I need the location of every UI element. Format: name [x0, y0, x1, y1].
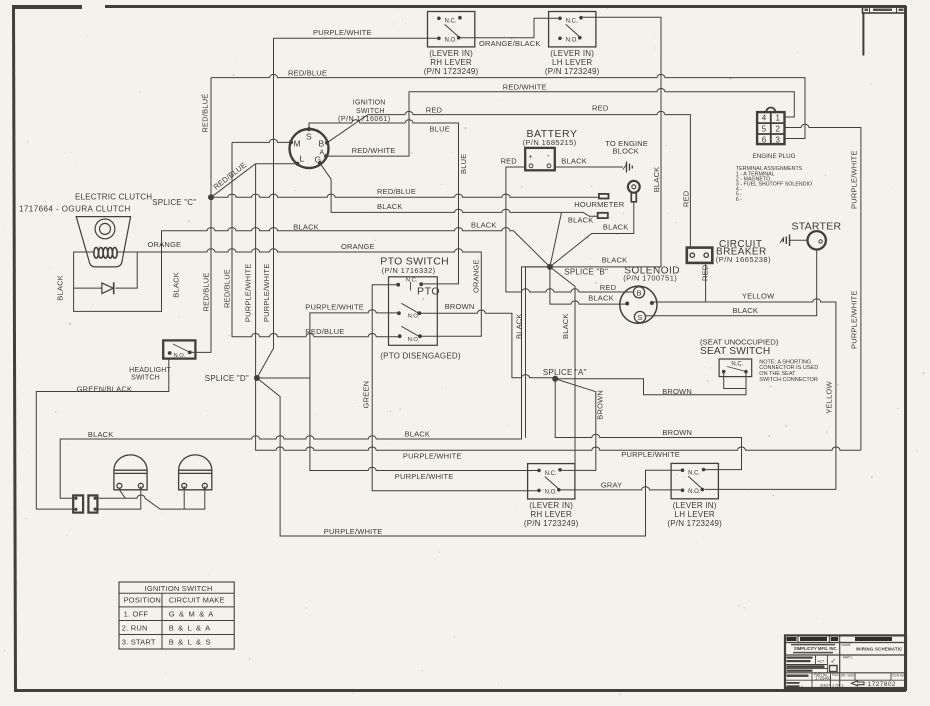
splice A — [552, 376, 558, 382]
wire: PURPLE/WHITE right vertical from engine plug pin 2 — [785, 124, 861, 450]
svg-text:N.C.: N.C. — [688, 471, 700, 477]
splice C — [208, 194, 214, 200]
svg-text:S: S — [306, 132, 312, 142]
svg-text:N.O.: N.O. — [174, 353, 186, 359]
svg-text:RED/BLUE: RED/BLUE — [202, 272, 211, 311]
svg-text:WIRING SCHEMATIC: WIRING SCHEMATIC — [856, 646, 903, 651]
svg-text:(P/N 1723249): (P/N 1723249) — [667, 519, 722, 528]
svg-text:(LEVER IN): (LEVER IN) — [429, 49, 473, 58]
battery (P/N 1685215) — [523, 128, 578, 170]
svg-text:PURPLE/WHITE: PURPLE/WHITE — [395, 472, 454, 481]
svg-text:SIMPLICITY MFG. INC.: SIMPLICITY MFG. INC. — [794, 646, 838, 651]
svg-text:PURPLE/WHITE: PURPLE/WHITE — [262, 263, 271, 322]
svg-text:1: 1 — [775, 114, 780, 123]
wire: BROWN PTO N.O. to splice A — [419, 310, 555, 378]
circuit breaker (P/N 1665238) — [687, 239, 771, 264]
engine plug — [757, 107, 784, 144]
svg-text:3. START: 3. START — [122, 638, 156, 647]
svg-text:+: + — [529, 154, 533, 161]
svg-text:(P/N 1685215): (P/N 1685215) — [523, 138, 577, 147]
svg-text:FILE: FILE — [832, 673, 839, 677]
svg-text:N.O.: N.O. — [408, 337, 420, 343]
svg-text:RED/WHITE: RED/WHITE — [352, 146, 396, 155]
lever switch RH lower (P/N 1723249) — [524, 464, 579, 528]
svg-text:STARTER: STARTER — [792, 220, 842, 232]
svg-text:(P/N 1716061): (P/N 1716061) — [338, 114, 391, 123]
svg-text:M: M — [294, 139, 301, 149]
svg-text:N.O.: N.O. — [545, 489, 558, 495]
wire: BLACK from ignition G to hourmeter lower terminal — [320, 163, 598, 216]
svg-text:DR. SIZE: DR. SIZE — [841, 674, 854, 678]
svg-text:RED/WHITE: RED/WHITE — [503, 83, 547, 92]
svg-text:ELECTRIC CLUTCH: ELECTRIC CLUTCH — [75, 192, 152, 201]
svg-text:RH LEVER: RH LEVER — [530, 510, 572, 519]
headlamp 1 — [114, 455, 147, 490]
diode branch wire — [74, 252, 138, 288]
svg-text:ECN No.: ECN No. — [893, 674, 906, 678]
svg-text:LH LEVER: LH LEVER — [552, 58, 592, 67]
seat switch shorting connector wire — [724, 372, 746, 389]
svg-text:(P/N 1665238): (P/N 1665238) — [716, 255, 771, 264]
svg-text:BLACK: BLACK — [602, 255, 628, 264]
svg-text:B & L & A: B & L & A — [169, 623, 212, 632]
svg-text:LH LEVER: LH LEVER — [675, 510, 715, 519]
wire: YELLOW solenoid to LH(lower) N.O. right — [652, 299, 836, 490]
PTO switch (P/N 1716332) — [380, 255, 461, 360]
svg-text:N.C.: N.C. — [731, 361, 743, 367]
svg-text:L: L — [300, 154, 305, 164]
svg-text:1727802: 1727802 — [868, 681, 896, 688]
svg-text:N.O.: N.O. — [445, 37, 458, 43]
wire: ring terminal to splice B — [550, 202, 634, 267]
svg-text:YELLOW: YELLOW — [742, 291, 775, 300]
svg-text:RED: RED — [501, 156, 518, 165]
svg-text:B & L & S: B & L & S — [169, 638, 212, 647]
svg-text:(P/N 1723249): (P/N 1723249) — [524, 519, 579, 528]
svg-text:BROWN: BROWN — [662, 428, 692, 437]
svg-text:3: 3 — [775, 135, 780, 144]
svg-text:✓: ✓ — [831, 658, 836, 665]
headlight connector 1 — [73, 495, 83, 512]
svg-text:6: 6 — [762, 135, 767, 144]
svg-text:SPLICE "C": SPLICE "C" — [152, 198, 196, 207]
svg-text:BROWN: BROWN — [445, 302, 475, 311]
svg-text:(P/N 1716332): (P/N 1716332) — [382, 266, 436, 275]
svg-text:SPLICE "B": SPLICE "B" — [564, 267, 608, 276]
ground symbol (engine block) — [623, 162, 632, 173]
svg-text:PURPLE/WHITE: PURPLE/WHITE — [850, 150, 859, 209]
svg-text:SEAT SWITCH: SEAT SWITCH — [700, 346, 770, 357]
svg-text:BLACK: BLACK — [561, 156, 587, 165]
svg-text:GREEN: GREEN — [362, 381, 371, 409]
electric clutch (1717664 OGURA) — [76, 217, 130, 267]
ring terminal — [628, 181, 640, 202]
wire: splice A down, BROWN run to LH(lower) N.C. right — [555, 379, 741, 470]
svg-text:BLACK: BLACK — [293, 223, 319, 232]
svg-text:PURPLE/WHITE: PURPLE/WHITE — [313, 28, 372, 37]
wire: RED battery to solenoid B — [506, 167, 634, 292]
svg-text:RED: RED — [700, 264, 709, 281]
svg-text:ORANGE/BLACK: ORANGE/BLACK — [479, 39, 541, 48]
svg-text:N.C.: N.C. — [566, 19, 578, 25]
wire: starter to chassis ground — [790, 239, 808, 241]
wire: splice D diagonal to PURPLE/WHITE y=535 run to LH(lower) N.C. — [257, 378, 682, 536]
svg-text:B: B — [636, 288, 641, 297]
wire: PURPLE/WHITE vertical through splice D, long bottom run — [256, 164, 861, 451]
wire: splice D east to PTO N.O. (PURPLE/WHITE) — [257, 310, 399, 378]
wire: PURPLE/WHITE x=310 vertical down to RH(lower) N.C. — [310, 378, 539, 471]
svg-text:IGNITION: IGNITION — [353, 100, 386, 107]
svg-text:SPLICE "D": SPLICE "D" — [205, 374, 249, 383]
svg-text:PURPLE/WHITE: PURPLE/WHITE — [244, 263, 253, 322]
lever switch LH (P/N 1723249) — [545, 12, 600, 77]
svg-text:(PTO DISENGAGED): (PTO DISENGAGED) — [380, 351, 461, 360]
svg-text:BLACK: BLACK — [56, 275, 65, 301]
svg-text:BLACK: BLACK — [588, 293, 614, 302]
svg-text:PURPLE/WHITE: PURPLE/WHITE — [305, 302, 364, 311]
svg-text:N.C.: N.C. — [445, 19, 457, 25]
wire: GREEN/BLACK headlight switch to connector — [36, 359, 169, 510]
svg-text:GRAY: GRAY — [601, 481, 623, 490]
wire: RED/BLUE vertical to PTO switch N.O. lower — [232, 142, 400, 336]
svg-text:SWITCH: SWITCH — [131, 374, 160, 381]
svg-text:1. OFF: 1. OFF — [124, 609, 149, 618]
solenoid (P/N 1700751) — [620, 265, 680, 323]
wire: headlight connector 2 top to headlamps — [95, 486, 205, 509]
wire: RED/WHITE from ignition A to engine plug pin 1 — [326, 89, 794, 157]
svg-text:(SEAT UNOCCUPIED): (SEAT UNOCCUPIED) — [700, 337, 779, 346]
svg-text:(P/N 1723249): (P/N 1723249) — [545, 67, 600, 76]
svg-text:6 -: 6 - — [736, 197, 742, 203]
wire: circuit breaker right terminal down to yellow junction (RED) — [705, 263, 707, 302]
wire: GREEN PTO N.C. down to y=490 run — [372, 285, 539, 491]
svg-text:RED/BLUE: RED/BLUE — [305, 327, 344, 336]
splice D — [254, 375, 260, 381]
svg-text:(P/N 1723249): (P/N 1723249) — [424, 67, 479, 76]
diode D1 — [102, 282, 114, 294]
svg-text:N.O.: N.O. — [688, 489, 701, 495]
wire: RED/BLUE vertical through splice C to headlight switch — [190, 78, 211, 353]
wire: BLACK clutch bottom to splice B — [74, 228, 550, 312]
svg-text:G: G — [315, 155, 322, 165]
svg-text:PURPLE/WHITE: PURPLE/WHITE — [621, 450, 680, 459]
wire: splice A east to seat switch (BROWN) — [555, 372, 746, 395]
svg-text:SHEET: SHEET — [820, 684, 831, 688]
ignition switch table — [119, 582, 234, 649]
svg-text:SWITCH CONNECTOR: SWITCH CONNECTOR — [759, 377, 818, 383]
wire: BLACK vertical splice B west then down — [526, 267, 550, 438]
wire: RED/BLUE from ignition area to engine plug pin 3 — [211, 74, 805, 138]
ignition switch (P/N 1716061) — [289, 100, 391, 168]
wire: BLACK battery to engine block ground — [555, 166, 623, 168]
headlight connector 2 — [88, 495, 97, 512]
svg-text:RED/BLUE: RED/BLUE — [201, 93, 210, 132]
svg-text:417: 417 — [818, 659, 825, 664]
splice B — [547, 264, 553, 270]
svg-text:RED: RED — [682, 190, 691, 207]
wire: BLACK solenoid S to starter — [646, 250, 817, 316]
wire: BLACK from LH lever N.C. down right side to splice B — [553, 17, 661, 267]
svg-text:BLACK: BLACK — [471, 221, 497, 230]
svg-text:BROWN: BROWN — [662, 387, 692, 396]
wire: RED/BLUE diagonal splice C to ignition — [211, 164, 256, 198]
svg-text:N.C.: N.C. — [545, 471, 557, 477]
svg-text:2. RUN: 2. RUN — [122, 623, 148, 632]
svg-text:(LEVER IN): (LEVER IN) — [529, 501, 573, 510]
wire: headlamp 1 left terminal diagonal — [119, 490, 125, 498]
wire: RED/BLUE from splice C to hourmeter upper terminal — [211, 194, 599, 197]
seat switch — [700, 337, 818, 383]
svg-text:5: 5 — [762, 125, 767, 134]
headlamp 2 — [179, 455, 212, 490]
svg-text:BLACK: BLACK — [515, 313, 524, 339]
svg-text:1 OF 1: 1 OF 1 — [832, 684, 844, 688]
lever switch LH lower (P/N 1723249) — [667, 463, 722, 528]
svg-text:RED/BLUE: RED/BLUE — [223, 269, 232, 308]
svg-text:RED: RED — [426, 105, 443, 114]
svg-text:RH LEVER: RH LEVER — [430, 58, 472, 67]
svg-text:BLACK: BLACK — [88, 430, 114, 439]
svg-text:BROWN: BROWN — [596, 390, 605, 420]
svg-text:(LEVER IN): (LEVER IN) — [673, 501, 717, 510]
svg-text:SPLICE "A": SPLICE "A" — [543, 368, 587, 377]
svg-text:ORANGE: ORANGE — [341, 242, 375, 251]
svg-text:ORANGE: ORANGE — [472, 259, 481, 293]
svg-text:1725403: 1725403 — [815, 676, 832, 681]
svg-text:PURPLE/WHITE: PURPLE/WHITE — [324, 527, 383, 536]
ground symbol (starter) — [780, 235, 790, 247]
svg-text:BLACK: BLACK — [561, 313, 570, 339]
svg-text:S: S — [637, 313, 642, 322]
svg-text:1717664 - OGURA CLUTCH: 1717664 - OGURA CLUTCH — [19, 204, 131, 213]
svg-text:2: 2 — [775, 125, 780, 134]
svg-text:-: - — [547, 151, 550, 160]
svg-text:IGNITION SWITCH: IGNITION SWITCH — [145, 584, 213, 593]
svg-text:N.O.: N.O. — [566, 37, 579, 43]
hourmeter — [574, 194, 625, 218]
svg-text:4: 4 — [762, 114, 767, 123]
svg-text:BLACK: BLACK — [568, 216, 594, 225]
revision box (top right) — [863, 7, 906, 56]
svg-text:MAT’L: MAT’L — [843, 656, 853, 660]
lever switch RH (P/N 1723249) — [424, 12, 479, 77]
svg-text:BLACK: BLACK — [172, 272, 181, 298]
wire: ignition M lead to RED/BLUE vertical — [232, 139, 291, 142]
svg-text:PTO: PTO — [417, 286, 440, 298]
svg-text:NAME: NAME — [842, 643, 851, 647]
svg-text:N.C.: N.C. — [406, 277, 418, 283]
svg-text:RED/BLUE: RED/BLUE — [377, 187, 416, 196]
svg-text:PURPLE/WHITE: PURPLE/WHITE — [403, 452, 462, 461]
svg-text:RED: RED — [592, 103, 609, 112]
wire: headlight connector 2 bottom to headlamp 1 right — [95, 486, 141, 509]
svg-text:GREEN/BLACK: GREEN/BLACK — [77, 385, 133, 394]
svg-text:BLACK: BLACK — [652, 167, 661, 193]
svg-text:(P/N 1700751): (P/N 1700751) — [623, 274, 677, 283]
wire: splice B to solenoid left terminal (BLACK) — [550, 267, 626, 304]
svg-text:3 - FUEL SHUTOFF SOLENDIO: 3 - FUEL SHUTOFF SOLENDIO — [736, 182, 812, 188]
svg-text:BLACK: BLACK — [603, 222, 629, 231]
svg-text:ENGINE PLUG: ENGINE PLUG — [753, 153, 796, 160]
wire: RED from ignition B to circuit breaker — [327, 111, 690, 247]
wire: GRAY between lower lever switches — [560, 487, 681, 490]
svg-text:G & M & A: G & M & A — [169, 609, 215, 618]
svg-text:N.O.: N.O. — [408, 314, 420, 320]
wire: splice A diagonal, BROWN vertical to RH(lower) N.C. right — [555, 379, 596, 471]
starter — [792, 220, 842, 249]
svg-text:BLACK: BLACK — [733, 306, 759, 315]
wire: headlamp 2 left terminal drop — [183, 486, 185, 509]
wire: ignition L lead — [256, 163, 298, 165]
wire: splice B diag to hourmeter black line — [550, 212, 562, 267]
svg-text:POSITION: POSITION — [124, 596, 161, 605]
svg-text:BLUE: BLUE — [459, 154, 468, 174]
svg-text:BLOCK: BLOCK — [613, 146, 639, 155]
svg-text:HEADLIGHT: HEADLIGHT — [129, 367, 171, 374]
svg-text:BLACK: BLACK — [377, 202, 403, 211]
wire: BLUE from ignition S to PTO switch N.C. — [309, 120, 459, 284]
wire: BLACK vertical from splice B diag down (x=575) — [550, 267, 575, 471]
svg-text:BLACK: BLACK — [405, 430, 431, 439]
wire: ORANGE/BLACK (RH N.O. to LH N.C.) — [460, 18, 560, 37]
svg-text:RED/BLUE: RED/BLUE — [288, 69, 327, 78]
svg-text:YELLOW: YELLOW — [825, 381, 834, 414]
svg-text:B: B — [319, 139, 325, 149]
svg-text:CIRCUIT MAKE: CIRCUIT MAKE — [169, 596, 225, 605]
headlight switch — [129, 340, 195, 381]
wire: ORANGE clutch to PTO switch — [116, 249, 481, 336]
title block — [785, 635, 906, 688]
wire: BLACK long bottom (headlight connectors to splice B line) — [60, 267, 553, 498]
svg-text:(LEVER IN): (LEVER IN) — [550, 49, 594, 58]
svg-text:BLUE: BLUE — [430, 124, 450, 133]
wire: PURPLE/WHITE top (to RH lever N.O.) — [257, 38, 439, 378]
svg-text:RED: RED — [600, 283, 617, 292]
svg-text:PURPLE/WHITE: PURPLE/WHITE — [850, 290, 859, 349]
svg-text:HOURMETER: HOURMETER — [574, 200, 625, 209]
clutch coil — [94, 248, 117, 259]
svg-text:ORANGE: ORANGE — [148, 240, 182, 249]
